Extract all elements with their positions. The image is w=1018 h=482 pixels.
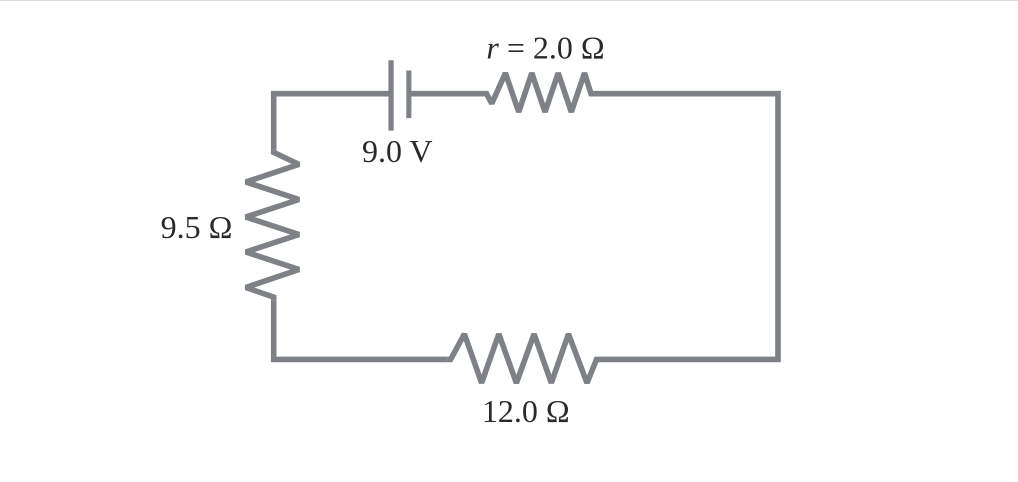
page top border	[0, 0, 1018, 1]
battery V1 short negative plate	[406, 71, 411, 119]
svg-text:12.0 Ω: 12.0 Ω	[482, 393, 570, 429]
svg-text:9.5 Ω: 9.5 Ω	[161, 209, 233, 245]
svg-text:9.0 V: 9.0 V	[362, 133, 433, 169]
wire from R3 through bottom-right and top-right corners to resistor r	[594, 94, 778, 360]
resistor R3 12.0 ohm (bottom, horizontal zigzag)	[448, 334, 600, 383]
wire from resistor r to battery negative plate	[409, 91, 484, 97]
resistor R1 9.5 ohm (left, vertical zigzag)	[246, 149, 299, 300]
svg-text:r = 2.0 Ω: r = 2.0 Ω	[486, 30, 604, 66]
wire from R1 bottom through bottom-left corner to resistor R3	[274, 300, 448, 359]
battery V1 long positive plate	[388, 60, 393, 130]
resistor r 2.0 ohm (top, horizontal zigzag)	[484, 73, 595, 112]
wire from battery positive plate to top-left corner down to resistor R1	[274, 94, 391, 150]
